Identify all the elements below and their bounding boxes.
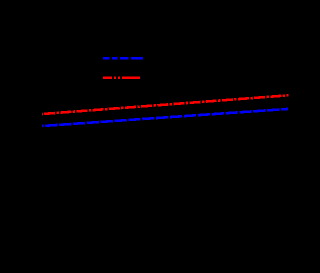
red data line	[42, 95, 289, 114]
blue data line	[42, 109, 288, 126]
legend red dash-dot sample	[103, 76, 140, 79]
legend blue dash-dot sample	[103, 57, 143, 60]
